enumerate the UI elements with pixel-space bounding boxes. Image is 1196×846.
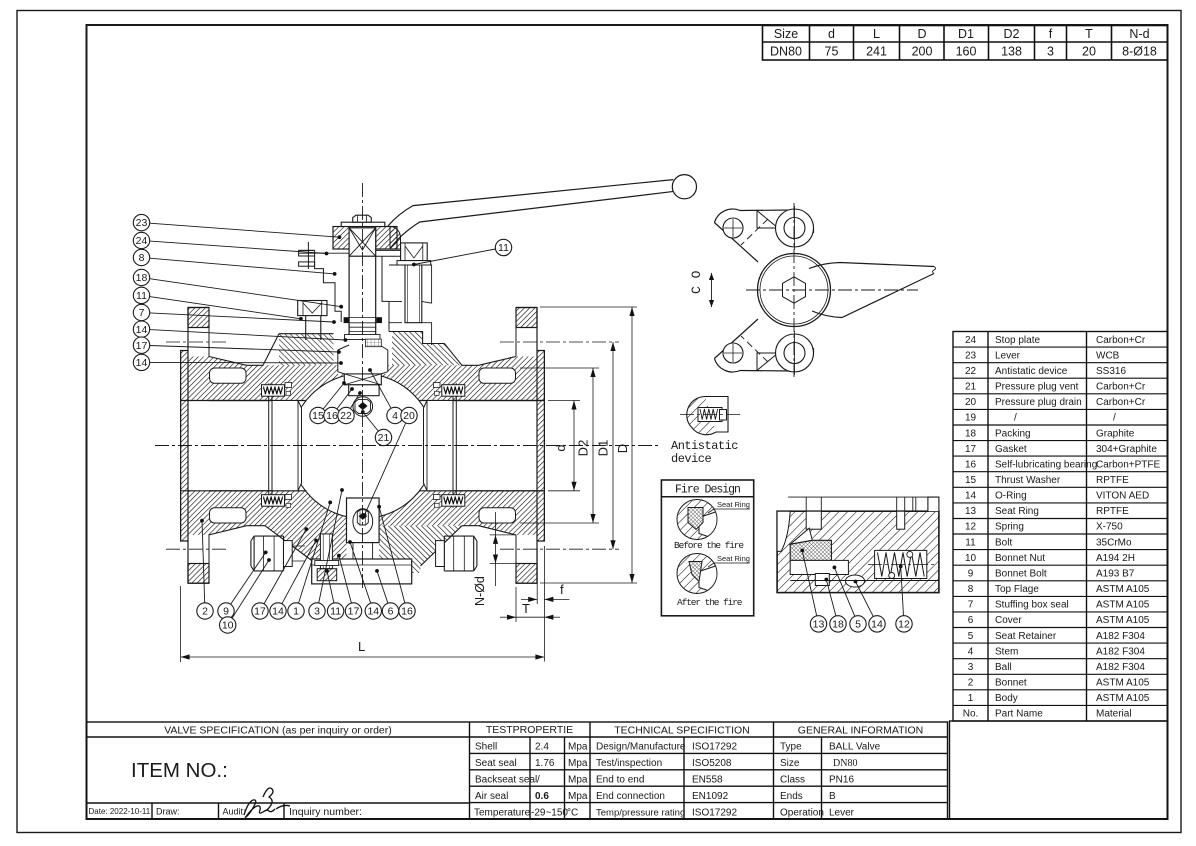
stem-ball connect square [344, 374, 381, 385]
seat ring left item 13 [272, 401, 302, 491]
callout 12 [901, 566, 904, 615]
callout 13 [802, 550, 817, 616]
svg-text:Seat Ring: Seat Ring [717, 554, 750, 563]
bolt item 11 [401, 243, 428, 261]
antistatic device detail [687, 397, 716, 435]
bolt hole centerline right top (D1 ext) [500, 341, 619, 343]
svg-text:Seat Retainer: Seat Retainer [995, 631, 1057, 642]
callout 20 [365, 423, 406, 515]
svg-text:Seat Ring: Seat Ring [717, 500, 750, 509]
callout 16 [379, 507, 405, 603]
callout 14 [282, 540, 316, 603]
svg-text:Ball: Ball [995, 662, 1012, 673]
body upper wall hatched [209, 357, 516, 401]
callout 14 [350, 542, 371, 603]
svg-text:f: f [560, 582, 564, 597]
svg-text:6: 6 [388, 606, 394, 618]
svg-text:Ends: Ends [780, 791, 803, 802]
svg-text:After the fire: After the fire [677, 597, 743, 608]
callout 8 [150, 258, 335, 274]
callout 11 [414, 249, 496, 265]
svg-text:0.6: 0.6 [535, 791, 549, 802]
svg-text:N-Ød: N-Ød [473, 576, 487, 606]
svg-text:A194 2H: A194 2H [1096, 553, 1135, 564]
svg-text:Air seal: Air seal [475, 791, 508, 802]
gasket block [434, 495, 441, 500]
svg-text:Cover: Cover [995, 615, 1022, 626]
top thin line [788, 496, 928, 498]
lever ball end [672, 175, 696, 199]
header underline [87, 736, 948, 738]
D2 dimension [520, 367, 599, 369]
callout 1 [299, 502, 331, 603]
D dimension [540, 306, 637, 308]
svg-text:f: f [1049, 27, 1053, 41]
center boss circle [758, 254, 831, 327]
test propertie columns [529, 737, 531, 819]
svg-text:Spring: Spring [995, 522, 1024, 533]
svg-text:14: 14 [272, 606, 284, 618]
seat spring pack [442, 385, 465, 397]
svg-text:3: 3 [968, 662, 974, 673]
center hex [783, 277, 806, 303]
svg-text:Mpa: Mpa [568, 775, 588, 786]
svg-text:Carbon+Cr: Carbon+Cr [1096, 382, 1146, 393]
svg-text:TESTPROPERTIE: TESTPROPERTIE [486, 724, 573, 736]
svg-text:ASTM A105: ASTM A105 [1096, 584, 1150, 595]
callout 11 [150, 297, 301, 319]
svg-text:A193 B7: A193 B7 [1096, 569, 1135, 580]
svg-text:9: 9 [968, 569, 974, 580]
lever item 23 [388, 180, 673, 226]
svg-text:11: 11 [330, 606, 341, 618]
svg-text:A182 F304: A182 F304 [1096, 646, 1145, 657]
seat ring right [424, 401, 454, 491]
svg-text:ASTM A105: ASTM A105 [1096, 600, 1150, 611]
callout 6 [377, 571, 388, 603]
small corner triangles [757, 211, 778, 228]
svg-text:16: 16 [965, 459, 977, 470]
flange top tab [516, 308, 537, 328]
svg-text:Temp/pressure rating: Temp/pressure rating [596, 808, 685, 819]
flange bottom tab [188, 564, 209, 584]
stop plate cap item 24 [333, 227, 349, 250]
svg-text:GENERAL INFORMATION: GENERAL INFORMATION [798, 725, 923, 737]
bearing item 16 [366, 339, 382, 347]
svg-text:Pressure plug vent: Pressure plug vent [995, 382, 1079, 393]
svg-text:Mpa: Mpa [568, 742, 588, 753]
svg-text:Packing: Packing [995, 428, 1031, 439]
bracket right profile [382, 256, 389, 331]
svg-text:Stop plate: Stop plate [995, 335, 1040, 346]
T dimension [515, 587, 517, 622]
svg-text:D1: D1 [958, 27, 974, 41]
svg-text:T: T [1085, 27, 1093, 41]
svg-text:BALL Valve: BALL Valve [829, 742, 881, 753]
size table [763, 26, 1168, 61]
svg-text:/: / [1113, 413, 1116, 424]
svg-text:17: 17 [348, 606, 360, 618]
svg-text:200: 200 [912, 45, 933, 59]
vent plug diamond [358, 402, 367, 410]
svg-text:12: 12 [898, 619, 910, 631]
bolt hole UL [723, 218, 743, 238]
svg-text:22: 22 [340, 410, 352, 422]
left flange outline [181, 308, 209, 584]
callout 11 [327, 571, 334, 603]
svg-text:18: 18 [965, 428, 977, 439]
callout 2 [202, 521, 205, 603]
trunnion step lines [352, 543, 354, 559]
svg-text:Mpa: Mpa [568, 791, 588, 802]
mounting plate outline [714, 209, 813, 372]
o-ring oval item 14 [845, 575, 864, 587]
svg-text:21: 21 [378, 432, 390, 444]
spring cavity [698, 408, 722, 422]
body outer lines [247, 364, 264, 366]
svg-text:4: 4 [392, 410, 398, 422]
stem channel white [338, 340, 388, 374]
svg-text:Operation: Operation [780, 808, 824, 819]
svg-text:23: 23 [965, 350, 977, 361]
svg-text:16: 16 [326, 410, 338, 422]
svg-text:Part Name: Part Name [995, 709, 1043, 720]
trunnion hex [357, 510, 368, 525]
svg-text:3: 3 [1047, 45, 1054, 59]
svg-text:12: 12 [965, 522, 977, 533]
bolt boss outline [389, 265, 432, 345]
svg-text:A182 F304: A182 F304 [1096, 631, 1145, 642]
svg-text:DN80: DN80 [833, 758, 857, 769]
svg-text:Seat Ring: Seat Ring [995, 506, 1039, 517]
svg-text:No.: No. [963, 709, 979, 720]
svg-text:Antistatic: Antistatic [671, 439, 738, 453]
top pocket right (white) [479, 368, 516, 383]
packing box item 18 [815, 574, 829, 586]
bolt hole LL [723, 343, 743, 363]
svg-text:17: 17 [965, 444, 977, 455]
svg-text:Date: 2022-10-11: Date: 2022-10-11 [89, 807, 151, 816]
seat detail enlarged body [777, 511, 939, 592]
svg-text:21: 21 [965, 382, 977, 393]
main section view [133, 175, 696, 662]
svg-text:Bonnet: Bonnet [995, 678, 1027, 689]
svg-text:PN16: PN16 [829, 775, 854, 786]
callout 24 [150, 241, 327, 253]
stem square with X [349, 228, 376, 256]
flange top tab [188, 308, 209, 328]
svg-text:O-Ring: O-Ring [995, 491, 1027, 502]
fire design box [661, 480, 753, 616]
slot stem lines above [805, 497, 807, 511]
bore bottom line right [453, 490, 544, 492]
svg-text:Temperature: Temperature [474, 808, 531, 819]
callout 16 [337, 389, 352, 409]
flange upper mass [516, 357, 537, 401]
bolt hole centerline right bottom (D1 ext) [500, 548, 619, 550]
svg-text:5: 5 [968, 631, 974, 642]
svg-text:3: 3 [314, 606, 320, 618]
svg-text:Bonnet Bolt: Bonnet Bolt [995, 569, 1047, 580]
tech spec column [683, 737, 685, 819]
bottom right mass [379, 526, 462, 573]
svg-text:D: D [615, 444, 630, 453]
flange hole gap edges [187, 328, 189, 357]
svg-text:Shell: Shell [475, 742, 497, 753]
bonnet nut right [444, 536, 477, 571]
svg-text:Lever: Lever [995, 350, 1021, 361]
right flange raised face [537, 351, 544, 542]
callout 5 [834, 567, 854, 616]
svg-text:14: 14 [136, 357, 148, 369]
svg-text:°C: °C [567, 808, 578, 819]
trunnion ball socket [353, 509, 373, 534]
top pocket left (white) [210, 368, 247, 383]
svg-text:Backseat seal: Backseat seal [475, 775, 537, 786]
svg-text:14: 14 [965, 491, 977, 502]
gasket block [285, 495, 292, 500]
svg-text:Gasket: Gasket [995, 444, 1027, 455]
svg-text:ITEM NO.:: ITEM NO.: [131, 759, 228, 782]
callout 18 [826, 580, 836, 617]
svg-text:/: / [1014, 413, 1017, 424]
svg-text:24: 24 [136, 235, 148, 247]
bottom pocket left (white) [210, 508, 247, 523]
svg-text:35CrMo: 35CrMo [1096, 537, 1132, 548]
svg-text:22: 22 [965, 366, 977, 377]
svg-text:-29~150: -29~150 [531, 808, 568, 819]
N-Od dimension [490, 534, 516, 536]
right flange outline [516, 308, 544, 584]
svg-text:Thrust Washer: Thrust Washer [995, 475, 1061, 486]
svg-text:Mpa: Mpa [568, 758, 588, 769]
callout 14 [150, 361, 341, 364]
svg-text:Carbon+PTFE: Carbon+PTFE [1096, 459, 1161, 470]
svg-text:160: 160 [956, 45, 977, 59]
svg-text:D2: D2 [1004, 27, 1020, 41]
callout 23 [150, 223, 340, 237]
bolt hole UR outer [776, 209, 814, 247]
svg-text:Test/inspection: Test/inspection [596, 758, 662, 769]
svg-text:Carbon+Cr: Carbon+Cr [1096, 397, 1146, 408]
svg-text:Design/Manufacture: Design/Manufacture [596, 742, 686, 753]
svg-text:Lever: Lever [829, 808, 855, 819]
callout 3 [319, 490, 342, 603]
svg-text:241: 241 [866, 45, 887, 59]
ball item 3 outline [290, 374, 435, 519]
svg-text:11: 11 [965, 537, 976, 548]
top step right white [928, 497, 939, 511]
bottom pocket right (white) [479, 508, 516, 523]
svg-text:Stem: Stem [995, 646, 1018, 657]
svg-text:N-d: N-d [1129, 27, 1149, 41]
stop pins item 22 area [299, 250, 315, 256]
svg-text:D: D [917, 27, 926, 41]
callout 9 [231, 552, 266, 604]
f dimension [536, 548, 538, 604]
svg-text:Before the fire: Before the fire [674, 540, 744, 551]
general info column [821, 737, 823, 819]
callout 22 [350, 393, 360, 409]
band edge lines bottom [209, 490, 307, 492]
flange bottom tab [516, 564, 537, 584]
L dimension [180, 586, 182, 662]
white notch above seat block [790, 528, 812, 544]
svg-text:T: T [522, 601, 530, 616]
svg-text:Bolt: Bolt [995, 537, 1012, 548]
gasket block [434, 383, 441, 388]
callout 17 [339, 556, 352, 603]
lever hub [390, 227, 401, 250]
seat ring block item 13 [790, 540, 831, 560]
svg-text:7: 7 [968, 600, 974, 611]
svg-text:5: 5 [855, 619, 861, 631]
bottom left mass [265, 526, 347, 561]
svg-text:d: d [553, 444, 568, 451]
svg-text:device: device [671, 452, 712, 466]
seat spring pack [262, 495, 285, 507]
bracket left profile [299, 250, 342, 322]
svg-text:8-Ø18: 8-Ø18 [1122, 45, 1157, 59]
title block [87, 722, 948, 819]
drain plug diamond [359, 513, 367, 520]
svg-text:15: 15 [312, 410, 324, 422]
svg-text:End connection: End connection [596, 791, 665, 802]
svg-text:6: 6 [968, 615, 974, 626]
svg-text:Body: Body [995, 693, 1018, 704]
svg-text:Draw:: Draw: [156, 807, 180, 817]
svg-text:1.76: 1.76 [535, 758, 555, 769]
flange upper mass [188, 357, 209, 401]
svg-text:11: 11 [136, 290, 147, 302]
top flange plate item 8 [376, 250, 418, 256]
svg-text:ISO17292: ISO17292 [692, 742, 737, 753]
svg-text:9: 9 [223, 606, 229, 618]
handle break squiggle [933, 267, 936, 274]
svg-text:18: 18 [832, 619, 844, 631]
rows right part [470, 752, 948, 754]
bonnet flange right hatched [392, 332, 462, 366]
svg-text:VALVE SPECIFICATION (as per in: VALVE SPECIFICATION (as per inquiry or o… [164, 725, 392, 737]
bore top line right [453, 400, 544, 402]
callout 14 [150, 330, 346, 340]
svg-text:10: 10 [965, 553, 977, 564]
svg-text:SS316: SS316 [1096, 366, 1126, 377]
svg-text:10: 10 [222, 620, 234, 632]
svg-text:20: 20 [1082, 45, 1096, 59]
svg-text:2: 2 [202, 606, 208, 618]
svg-text:Antistatic device: Antistatic device [995, 366, 1068, 377]
bolt hole LR outer [776, 334, 814, 372]
svg-text:Pressure plug drain: Pressure plug drain [995, 397, 1082, 408]
svg-text:11: 11 [498, 242, 509, 254]
handle top view [809, 263, 934, 318]
svg-text:VITON AED: VITON AED [1096, 491, 1149, 502]
callout 21 [363, 412, 379, 431]
svg-text:13: 13 [813, 619, 825, 631]
svg-text:75: 75 [825, 45, 839, 59]
main horizontal centerline [155, 445, 660, 447]
svg-text:Carbon+Cr: Carbon+Cr [1096, 335, 1146, 346]
svg-text:C O: C O [689, 270, 704, 294]
trunnion block [347, 498, 380, 543]
svg-text:End to end: End to end [596, 775, 644, 786]
svg-text:ISO17292: ISO17292 [692, 808, 737, 819]
callout 18 [150, 279, 342, 307]
svg-text:18: 18 [136, 272, 148, 284]
vent plug circle at ball top item 21 [353, 397, 373, 417]
svg-text:17: 17 [136, 340, 148, 352]
svg-text:24: 24 [965, 335, 977, 346]
svg-text:8: 8 [968, 584, 974, 595]
callout 4 [370, 370, 391, 408]
svg-text:RPTFE: RPTFE [1096, 475, 1129, 486]
body joint right [455, 383, 457, 507]
svg-text:Type: Type [780, 742, 802, 753]
svg-text:X-750: X-750 [1096, 522, 1123, 533]
svg-text:19: 19 [965, 413, 977, 424]
ball side white wedge [777, 511, 790, 551]
gland bolt left item 9 [298, 301, 327, 316]
svg-text:L: L [358, 639, 365, 654]
body joint left [268, 383, 270, 507]
svg-text:Inquiry number:: Inquiry number: [289, 806, 362, 818]
svg-text:ASTM A105: ASTM A105 [1096, 678, 1150, 689]
seat spring pack [442, 495, 465, 507]
svg-text:Fire Design: Fire Design [675, 484, 740, 497]
svg-text:8: 8 [139, 252, 145, 264]
svg-text:1: 1 [968, 693, 974, 704]
svg-text:304+Graphite: 304+Graphite [1096, 444, 1157, 455]
svg-text:13: 13 [965, 506, 977, 517]
svg-text:WCB: WCB [1096, 350, 1120, 361]
cover item 6 [312, 559, 412, 584]
drain plug item 20 [320, 534, 332, 569]
bore bottom line left [181, 490, 272, 492]
bolt hole centerlines left flange [166, 341, 228, 343]
band edge lines top [209, 400, 307, 402]
stem body item 4 [349, 256, 376, 340]
seat ring detail circle [677, 554, 717, 594]
callout 14 [856, 582, 874, 617]
callout 17 [264, 529, 306, 604]
svg-text:20: 20 [965, 397, 977, 408]
svg-text:Material: Material [1096, 709, 1132, 720]
seat ring detail circle [677, 500, 717, 540]
D1 dimension [612, 342, 614, 549]
svg-text:4: 4 [968, 646, 974, 657]
callout 10 [232, 560, 269, 618]
svg-text:1: 1 [293, 606, 299, 618]
gasket block [285, 383, 292, 388]
main vertical centerline [362, 183, 364, 588]
svg-text:DN80: DN80 [770, 45, 802, 59]
slot 1 white [806, 511, 821, 529]
svg-text:EN558: EN558 [692, 775, 723, 786]
centerlines [746, 289, 918, 291]
svg-text:Seat seal: Seat seal [475, 758, 517, 769]
stem lower flange [338, 345, 388, 372]
svg-text:7: 7 [139, 307, 145, 319]
callout 15 [323, 383, 344, 409]
flange hole gap edges [515, 328, 517, 357]
svg-text:Stuffing box seal: Stuffing box seal [995, 600, 1069, 611]
svg-text:15: 15 [965, 475, 977, 486]
svg-text:23: 23 [136, 217, 148, 229]
packing rings item 18 [344, 318, 349, 323]
svg-text:16: 16 [401, 606, 413, 618]
svg-text:Size: Size [774, 27, 798, 41]
